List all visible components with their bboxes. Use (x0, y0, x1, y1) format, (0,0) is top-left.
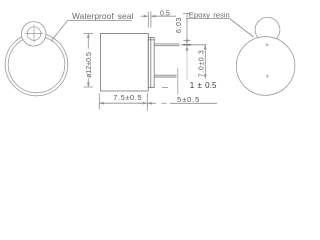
svg-text:7.5±0.5: 7.5±0.5 (113, 93, 142, 102)
svg-text:Epoxy resin: Epoxy resin (189, 11, 230, 20)
svg-text:5±0.5: 5±0.5 (177, 95, 200, 104)
svg-text:Waterproof seal: Waterproof seal (72, 11, 133, 21)
svg-text:0.5: 0.5 (160, 10, 170, 17)
svg-text:6.03: 6.03 (176, 17, 183, 33)
svg-text:1 ± 0.5: 1 ± 0.5 (190, 81, 217, 90)
svg-text:7.0±0.3: 7.0±0.3 (199, 50, 206, 78)
svg-text:ø12±0.5: ø12±0.5 (86, 52, 93, 78)
